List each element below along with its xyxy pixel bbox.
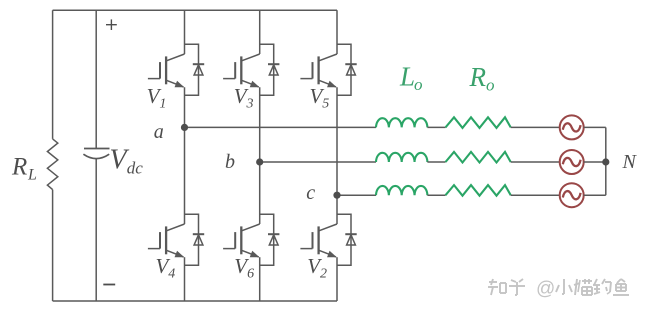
svg-text:o: o: [414, 75, 423, 94]
svg-text:o: o: [486, 75, 495, 94]
svg-text:dc: dc: [127, 159, 144, 178]
svg-text:4: 4: [168, 266, 175, 281]
svg-text:R: R: [469, 62, 487, 92]
svg-text:5: 5: [322, 96, 329, 111]
svg-text:N: N: [622, 151, 638, 173]
svg-text:b: b: [225, 151, 235, 173]
svg-text:@: @: [536, 279, 555, 300]
svg-text:3: 3: [246, 96, 254, 111]
svg-text:L: L: [27, 167, 37, 184]
svg-text:2: 2: [320, 266, 327, 281]
svg-text:R: R: [11, 153, 27, 180]
svg-text:a: a: [154, 121, 164, 143]
svg-text:c: c: [306, 182, 315, 204]
svg-text:L: L: [399, 62, 415, 92]
svg-text:1: 1: [159, 96, 166, 111]
svg-text:6: 6: [247, 266, 254, 281]
